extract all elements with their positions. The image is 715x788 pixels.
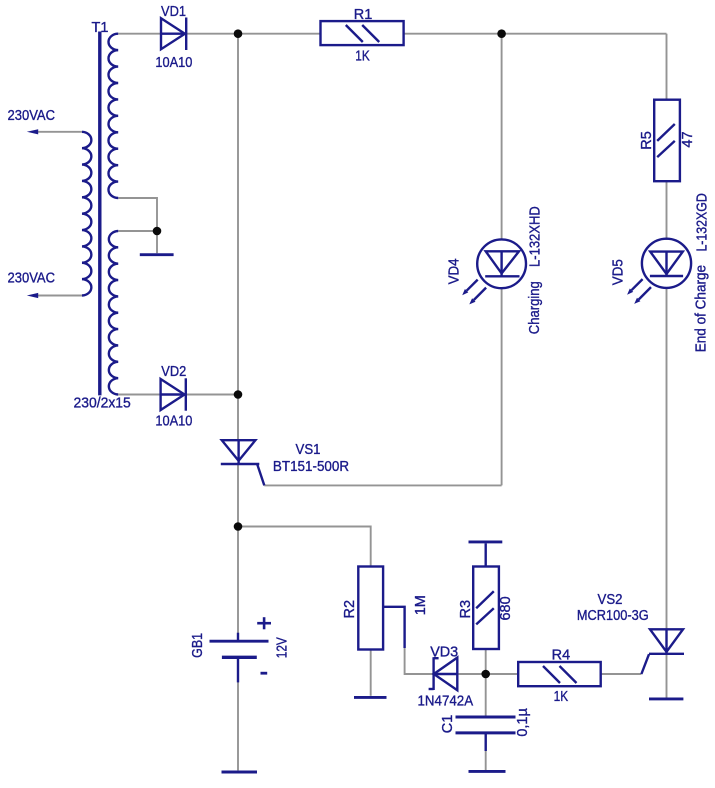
wire: VS1 cathode to lower junction <box>237 464 239 527</box>
svg-text:R1: R1 <box>354 7 373 23</box>
wire: R2 tap down to VD3 cathode <box>405 648 433 674</box>
svg-text:230VAC: 230VAC <box>8 108 56 124</box>
wire: junction right and down to R2 top <box>238 527 371 567</box>
junction node: VD2 output <box>234 390 243 399</box>
power rail bar above R3 <box>469 540 503 543</box>
svg-text:1K: 1K <box>554 689 569 705</box>
wire: middle rail junction to VD4 top <box>501 34 503 240</box>
svg-text:1M: 1M <box>413 595 429 615</box>
svg-text:VD4: VD4 <box>447 258 463 284</box>
svg-text:T1: T1 <box>92 20 109 36</box>
diode VD2 <box>161 378 186 410</box>
wire: left rail from VD1 junction down to VD2 junction <box>237 34 239 395</box>
resistor R5 <box>654 100 680 182</box>
ground: VS2 cathode <box>649 697 683 700</box>
svg-text:VD1: VD1 <box>161 4 186 20</box>
svg-text:1K: 1K <box>355 48 370 64</box>
transformer T1 primary winding <box>82 132 91 296</box>
svg-text:End of Charge: End of Charge <box>694 265 710 352</box>
wire: junction down to C1 top <box>485 674 487 716</box>
junction node: R1 output <box>497 29 506 38</box>
svg-text:230/2x15: 230/2x15 <box>74 395 131 411</box>
transformer T1 secondary winding lower half <box>109 231 118 395</box>
junction node: VD1 output <box>234 29 243 38</box>
svg-text:10A10: 10A10 <box>155 55 192 71</box>
svg-text:MCR100-3G: MCR100-3G <box>577 608 649 624</box>
arrowhead 230VAC top <box>27 129 38 134</box>
wire: center tap to ground <box>156 231 158 253</box>
ground: battery negative <box>222 771 258 774</box>
ground: transformer center tap <box>140 253 174 256</box>
svg-text:R3: R3 <box>458 600 474 619</box>
svg-text:VD5: VD5 <box>611 259 627 285</box>
svg-text:L-132XGD: L-132XGD <box>694 193 710 251</box>
LED VD5 <box>627 239 691 304</box>
zener diode VD3 <box>429 657 458 690</box>
wire: center tap upper winding lead <box>118 198 157 231</box>
wire: right rail down to R5 top <box>666 34 668 101</box>
wire: VS1 gate horizontal run <box>264 484 501 486</box>
svg-text:BT151-500R: BT151-500R <box>273 459 349 475</box>
svg-text:GB1: GB1 <box>190 633 206 658</box>
wire: VD5 bottom to VS2 anode <box>666 288 668 631</box>
capacitor C1 <box>456 717 516 751</box>
wire: VD1 cathode to R1 left <box>186 33 321 35</box>
wire: VD3 anode to junction <box>458 673 486 675</box>
svg-text:R2: R2 <box>342 600 358 619</box>
resistor R3 <box>473 543 499 649</box>
resistor R2 with tap <box>358 567 404 650</box>
wire: R2 bottom to ground <box>370 650 372 696</box>
wire: battery minus to ground <box>237 682 239 770</box>
svg-text:VD2: VD2 <box>161 364 186 380</box>
thyristor VS1 <box>221 440 264 485</box>
transformer T1 core <box>98 32 101 396</box>
thyristor VS2 <box>641 629 684 674</box>
wire: center tap lower winding lead <box>118 230 157 232</box>
battery GB1 <box>210 617 272 682</box>
ground: C1 bottom <box>469 770 506 773</box>
svg-text:47: 47 <box>680 131 696 147</box>
resistor R4 <box>518 662 601 686</box>
LED VD4 <box>462 239 526 304</box>
wire: VD2 cathode to junction <box>186 394 238 396</box>
svg-text:12V: 12V <box>275 637 291 658</box>
svg-text:230VAC: 230VAC <box>8 271 56 287</box>
junction node: VS1 cathode / battery <box>234 522 243 531</box>
svg-text:L-132XHD: L-132XHD <box>528 206 544 267</box>
wire: junction to R4 left <box>486 673 519 675</box>
resistor R1 <box>321 21 404 45</box>
arrowhead 230VAC bottom <box>27 293 38 298</box>
wire: junction down to battery plus <box>237 527 239 634</box>
junction node: center tap <box>153 227 162 236</box>
transformer T1 secondary winding upper half <box>108 34 118 198</box>
wire: R4 right to VS2 gate bend <box>601 673 642 675</box>
wire: 230VAC top lead <box>36 131 82 133</box>
svg-text:R4: R4 <box>552 647 571 663</box>
wire: R5 bottom to VD5 top <box>666 181 668 240</box>
ground: R2 bottom <box>354 696 387 699</box>
svg-text:VS2: VS2 <box>598 592 623 608</box>
wire: VS2 cathode to ground <box>666 654 668 698</box>
svg-text:VS1: VS1 <box>296 442 321 458</box>
svg-text:680: 680 <box>498 596 514 620</box>
wire: C1 bottom to ground <box>485 734 487 770</box>
svg-text:1N4742A: 1N4742A <box>418 694 474 710</box>
wire: secondary bottom terminal to VD2 anode <box>118 394 160 396</box>
wire: secondary top terminal to VD1 anode <box>118 33 161 35</box>
svg-text:VD3: VD3 <box>430 645 458 661</box>
wire: R3 bottom pin to junction <box>485 649 487 674</box>
wire: VD4 bottom down to VS1 gate corner <box>501 287 503 485</box>
svg-text:Charging: Charging <box>527 281 543 334</box>
wire: 230VAC bottom lead <box>36 295 82 297</box>
svg-text:C1: C1 <box>440 715 456 734</box>
svg-text:10A10: 10A10 <box>155 414 192 430</box>
junction node: VD3 / R3 / R4 / C1 <box>481 670 490 679</box>
wire: VD2 junction down to VS1 anode <box>237 395 239 441</box>
svg-text:0,1µ: 0,1µ <box>515 708 531 737</box>
diode VD1 <box>161 18 186 51</box>
wire: R1 right to top-right corner <box>404 33 667 35</box>
svg-text:R5: R5 <box>639 131 655 150</box>
